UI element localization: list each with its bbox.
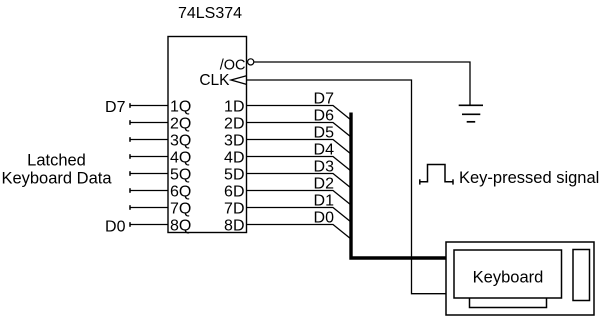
wire 7Q (130, 205, 168, 210)
wire 3D to bus (247, 140, 352, 155)
wire /OC to ground (254, 62, 470, 105)
svg-text:3D: 3D (224, 132, 244, 149)
keyboard inner panel (454, 250, 562, 298)
svg-text:3Q: 3Q (170, 132, 191, 149)
svg-text:D4: D4 (314, 142, 335, 159)
svg-text:8Q: 8Q (170, 217, 191, 234)
svg-text:D6: D6 (314, 108, 335, 125)
keyboard side slot (573, 250, 590, 301)
IC U1 74LS374 body (168, 37, 247, 233)
keyboard connector tab (470, 298, 547, 308)
wire 3Q (130, 137, 168, 142)
svg-text:Latched: Latched (27, 152, 86, 170)
svg-text:7Q: 7Q (170, 200, 191, 217)
ground (459, 105, 483, 122)
label Latched Keyboard Data (1, 152, 112, 188)
svg-text:Keyboard: Keyboard (473, 268, 544, 286)
svg-text:4D: 4D (224, 149, 244, 166)
svg-text:74LS374: 74LS374 (178, 5, 242, 22)
svg-text:D0: D0 (314, 210, 335, 227)
wire 2Q (130, 120, 168, 125)
svg-text:1Q: 1Q (170, 98, 191, 115)
wire 1D to bus (247, 106, 352, 121)
svg-text:1D: 1D (224, 98, 244, 115)
svg-text:Keyboard Data: Keyboard Data (1, 170, 112, 188)
bus to keyboard (351, 113, 446, 259)
wire 4Q (130, 154, 168, 159)
svg-text:D7: D7 (314, 91, 335, 108)
CLK edge-trigger arrow (231, 76, 247, 85)
svg-text:5D: 5D (224, 166, 244, 183)
svg-text:D3: D3 (314, 159, 335, 176)
wire 7D to bus (247, 208, 352, 223)
wire 5D to bus (247, 174, 352, 189)
pin /OC inversion bubble (248, 59, 254, 65)
keyboard outer case (446, 242, 594, 315)
svg-text:5Q: 5Q (170, 166, 191, 183)
svg-text:D2: D2 (314, 176, 335, 193)
svg-text:D1: D1 (314, 193, 335, 210)
svg-text:4Q: 4Q (170, 149, 191, 166)
svg-text:6Q: 6Q (170, 183, 191, 200)
wire 6Q (130, 188, 168, 193)
svg-text:2D: 2D (224, 115, 244, 132)
svg-text:CLK: CLK (199, 72, 230, 89)
pulse waveform key-pressed (420, 165, 453, 185)
svg-text:D7: D7 (105, 99, 126, 116)
wire 5Q (130, 171, 168, 176)
svg-text:Key-pressed signal: Key-pressed signal (459, 169, 599, 187)
svg-text:7D: 7D (224, 200, 244, 217)
wire 1Q (130, 103, 168, 108)
svg-text:2Q: 2Q (170, 115, 191, 132)
wire 2D to bus (247, 123, 352, 138)
wire 8Q (130, 222, 168, 227)
svg-text:8D: 8D (224, 217, 244, 234)
wire 6D to bus (247, 191, 352, 206)
svg-text:D5: D5 (314, 125, 335, 142)
svg-text:D0: D0 (105, 218, 126, 235)
wire 4D to bus (247, 157, 352, 172)
svg-text:6D: 6D (224, 183, 244, 200)
wire CLK to keyboard (247, 80, 447, 294)
wire 8D to bus (247, 225, 352, 240)
